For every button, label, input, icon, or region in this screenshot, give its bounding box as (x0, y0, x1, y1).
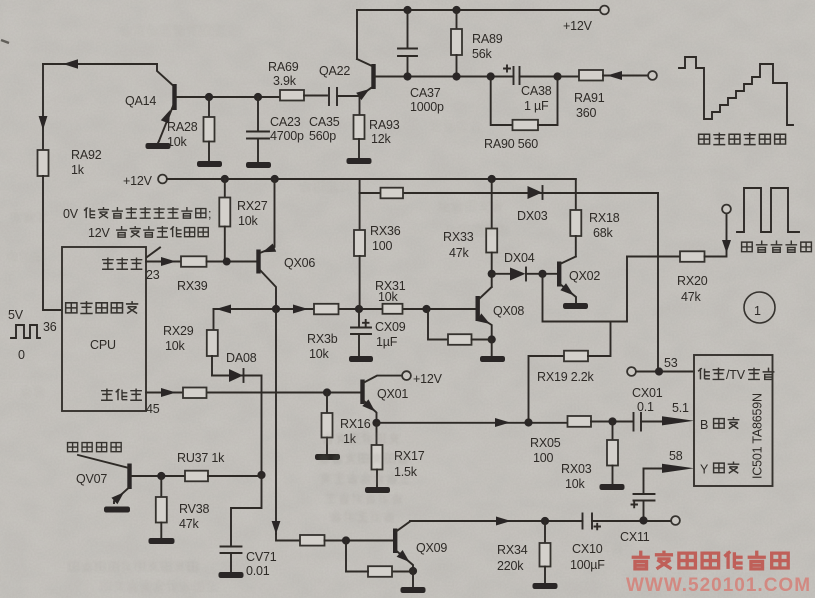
node rail dot RX33 (488, 175, 496, 183)
terminal flyback pulse input (722, 205, 731, 214)
svg-text:36: 36 (43, 320, 57, 334)
ground CX09 (349, 356, 373, 362)
svg-text:CV71: CV71 (246, 550, 277, 564)
node dot RA89 bottom (452, 72, 460, 80)
svg-text:0V: 0V (63, 207, 79, 221)
arrow pin45 (161, 388, 176, 397)
svg-text:45: 45 (146, 402, 160, 416)
svg-text:RX36: RX36 (370, 224, 401, 238)
node QX01 emitter (372, 419, 380, 427)
svg-text:100: 100 (372, 239, 393, 253)
wire QA14 base row (176, 96, 280, 98)
arrow right on row 309 (293, 305, 308, 314)
resistor RA91 (558, 70, 649, 120)
CPU label blue character (101, 389, 142, 401)
svg-text:CX10: CX10 (572, 542, 603, 556)
resistor QX09 base series (300, 535, 393, 546)
svg-text:QX06: QX06 (284, 256, 315, 270)
CPU block IC (62, 247, 146, 411)
svg-text:10k: 10k (378, 290, 399, 304)
svg-text:RA28: RA28 (167, 120, 198, 134)
node DX04 left (488, 270, 496, 278)
svg-text:CA35: CA35 (309, 115, 340, 129)
IC label char/TV switch (698, 368, 724, 380)
svg-text:QX01: QX01 (377, 387, 408, 401)
wire +12V rail middle (167, 178, 576, 180)
resistor RX03 (561, 422, 618, 492)
label video sync signal (699, 133, 786, 145)
svg-text:+12V: +12V (563, 19, 593, 33)
wire QX02 base network rectangle (543, 257, 628, 322)
resistor RX3b (307, 304, 339, 361)
svg-text:0.01: 0.01 (246, 564, 270, 578)
node B row RX03 tap (608, 417, 616, 425)
resistor RX36 (354, 224, 401, 309)
resistor RA93 (354, 96, 400, 158)
node QX06 base dot (223, 258, 231, 266)
arrow pin23 (161, 257, 176, 266)
svg-text:RX18: RX18 (589, 211, 620, 225)
svg-text:10k: 10k (165, 339, 186, 353)
resistor clamp series (381, 188, 404, 199)
resistor RX34 (497, 521, 551, 583)
node base row dot 2 (254, 93, 262, 101)
arrow down on left vertical (39, 116, 48, 130)
wire RA92 to CPU pin 36 (43, 176, 62, 310)
svg-text:CX09: CX09 (375, 320, 406, 334)
wire B signal row (377, 422, 568, 424)
arrow down to QX09 base row (272, 521, 281, 534)
node bottom RX34 (541, 517, 549, 525)
arrow into pin Y (662, 464, 694, 473)
svg-text:CA23: CA23 (270, 115, 301, 129)
svg-text:0.1: 0.1 (637, 400, 654, 414)
wire RX19 column (529, 356, 565, 423)
wire DA08 down vertical (261, 376, 263, 476)
wire pin23 to RX39 (146, 261, 181, 263)
svg-text:12k: 12k (371, 132, 392, 146)
svg-text:QA14: QA14 (125, 94, 156, 108)
diode DX04 (492, 251, 557, 281)
pin 58 label (669, 449, 683, 463)
wire left vertical to RA92 (42, 64, 44, 150)
svg-text:DX04: DX04 (504, 251, 535, 265)
svg-text:RX20: RX20 (677, 274, 708, 288)
wire clamp feedback vertical to pin53 (657, 193, 659, 372)
pin 53 label (664, 356, 678, 370)
svg-text:RX19 2.2k: RX19 2.2k (537, 370, 595, 384)
resistor pin45 series (183, 388, 207, 399)
resistor RX20 (627, 214, 727, 305)
diode DX03 (517, 186, 548, 223)
svg-text:CA37: CA37 (410, 86, 441, 100)
svg-text:23: 23 (146, 268, 160, 282)
resistor RX27 (219, 179, 267, 262)
ground RA93 (347, 158, 372, 164)
node top rail dot CA37 (403, 6, 411, 14)
svg-text:IC501 TA8659N: IC501 TA8659N (751, 393, 765, 479)
resistor RX16 (322, 393, 371, 455)
svg-text:RA90 560: RA90 560 (484, 137, 538, 151)
svg-text:220k: 220k (497, 559, 524, 573)
ground CA23 (246, 162, 271, 168)
node DX04 right QX02 base (538, 270, 546, 278)
svg-text:100: 100 (533, 451, 554, 465)
svg-text:RX27: RX27 (237, 199, 268, 213)
svg-text:0: 0 (18, 348, 25, 362)
ground QX08 (480, 356, 505, 362)
wire QA22 base row to CA38 (375, 76, 514, 78)
svg-text:+12V: +12V (123, 174, 153, 188)
ground QX02 (563, 303, 588, 309)
CPU label sync signal in (66, 301, 139, 313)
wire pin45 blue-character row (146, 392, 361, 394)
svg-text:1: 1 (754, 304, 761, 318)
capacitor CX01 (632, 386, 663, 431)
svg-text:53: 53 (664, 356, 678, 370)
svg-text:1k: 1k (71, 163, 85, 177)
capacitor CX09 (351, 309, 406, 356)
wire QX09 emitter ground (412, 571, 414, 587)
resistor RX29 (163, 324, 218, 376)
watermark red url (626, 575, 811, 596)
svg-text:10k: 10k (565, 477, 586, 491)
arrow down flyback (722, 240, 731, 253)
wire top-left horizontal feedback (43, 63, 157, 65)
svg-text:68k: 68k (593, 226, 614, 240)
svg-text:RX39: RX39 (177, 279, 208, 293)
node dot CA38 left (487, 72, 495, 80)
terminal +12V QX01 (402, 371, 443, 386)
arrow bottom row (496, 517, 511, 526)
transistor QA14 (125, 64, 177, 141)
svg-text:RX3b: RX3b (307, 332, 338, 346)
pin 45 label (146, 402, 160, 416)
terminal video sync input (648, 71, 657, 80)
wire QV07 base row (131, 475, 185, 477)
resistor RX19 (537, 322, 611, 385)
svg-text:Y: Y (700, 463, 709, 477)
resistor RA90 bypass (484, 77, 558, 152)
svg-text:DA08: DA08 (226, 351, 257, 365)
wire clamp row with series resistor (360, 192, 658, 194)
svg-text:RX29: RX29 (163, 324, 194, 338)
wire to CV71 (231, 475, 262, 546)
wire row309 left bend to RX29 (213, 309, 215, 330)
svg-text:RA89: RA89 (472, 32, 503, 46)
svg-text:10k: 10k (309, 347, 330, 361)
CPU label blue background (102, 258, 142, 270)
svg-text:10k: 10k (167, 135, 188, 149)
svg-text:47k: 47k (449, 246, 470, 260)
wire QX09 base row (276, 534, 300, 541)
capacitor CA23 (247, 97, 304, 162)
ground QA14 emitter (146, 141, 171, 149)
arrow B row (495, 418, 510, 427)
label signal signal QV07 (68, 443, 122, 452)
node QX08 emitter (488, 335, 496, 343)
resistor RX33 (443, 179, 497, 274)
svg-text:1.5k: 1.5k (394, 465, 418, 479)
node QX09 emitter (409, 567, 417, 575)
node base row dot 1 (205, 93, 213, 101)
node dot CA37 bottom (403, 72, 411, 80)
ground RX17 (365, 487, 390, 493)
node top rail dot RA89 (452, 6, 460, 14)
svg-text:4700p: 4700p (270, 129, 304, 143)
node dot CA38 right (553, 72, 561, 80)
wire pin53 row (636, 371, 694, 373)
wire long vertical to QX09 (275, 309, 277, 534)
symbol circled 1 (744, 292, 775, 323)
node rail dot QX06 emitter (271, 175, 279, 183)
capacitor CA35 (309, 88, 360, 143)
transistor QX01 (360, 376, 408, 423)
IC label Y input pin (700, 463, 709, 477)
terminal +12V mid-left (123, 174, 167, 188)
svg-text:CX01: CX01 (632, 386, 663, 400)
resistor RA69 (268, 60, 327, 101)
pin 23 label and slash (146, 248, 160, 283)
resistor RX31 (375, 279, 406, 314)
node row309 CX09 (355, 305, 363, 313)
transistor QV07 (76, 455, 132, 504)
transistor QX08 (476, 274, 525, 340)
svg-text:WWW.520101.COM: WWW.520101.COM (626, 575, 811, 596)
capacitor CX11 (620, 469, 655, 545)
resistor QX08 feedback (428, 309, 492, 345)
svg-text:5V: 5V (8, 308, 24, 322)
capacitor CV71 (221, 547, 277, 579)
svg-text:1 µF: 1 µF (524, 99, 549, 113)
ground RX16 (315, 454, 340, 460)
svg-text:360: 360 (576, 106, 597, 120)
arrow into RA91 (607, 71, 622, 80)
svg-text:DX03: DX03 (517, 209, 548, 223)
pin 5.1 label (672, 401, 689, 415)
node row309 QX06 collector (272, 305, 280, 313)
resistor RA89 (451, 10, 503, 77)
arrow left on row 309 (216, 305, 231, 314)
resistor RU37 (177, 451, 262, 481)
node B row RX19 tap (524, 418, 532, 426)
terminal pin53 (627, 367, 636, 376)
svg-text:CPU: CPU (90, 338, 116, 352)
svg-text:/TV: /TV (726, 368, 746, 382)
svg-text:47k: 47k (681, 290, 702, 304)
transistor QX02 (557, 257, 600, 304)
node QX09 base (342, 536, 350, 544)
wire Y row (644, 468, 663, 470)
svg-text:CA38: CA38 (521, 84, 552, 98)
wire RX36 column (359, 179, 361, 230)
ground RX34 (533, 583, 558, 589)
arrow into pin B (662, 416, 694, 425)
note 0V low level blue background text line1 (63, 207, 79, 221)
resistor RX05 (530, 416, 633, 465)
svg-text:RU37 1k: RU37 1k (177, 451, 225, 465)
svg-text:RX34: RX34 (497, 543, 528, 557)
terminal bottom output (671, 516, 680, 525)
diode DA08 (212, 351, 262, 382)
capacitor CX10 (570, 514, 672, 573)
resistor RX18 (570, 179, 619, 257)
svg-text:1µF: 1µF (376, 335, 398, 349)
svg-text:56k: 56k (472, 47, 493, 61)
pin 36 label (43, 320, 57, 334)
svg-text:3.9k: 3.9k (273, 74, 297, 88)
node bottom CX11 (639, 516, 647, 524)
wire signal row 309 (214, 308, 476, 310)
ground QX09 (401, 587, 426, 593)
ground RV38 (149, 538, 175, 544)
svg-text:560p: 560p (309, 129, 336, 143)
svg-text:RX05: RX05 (530, 436, 561, 450)
svg-text:QX02: QX02 (569, 269, 600, 283)
wire top supply rail (357, 9, 600, 11)
svg-text:RA69: RA69 (268, 60, 299, 74)
svg-text:RA92: RA92 (71, 148, 102, 162)
svg-text:1000p: 1000p (410, 100, 444, 114)
resistor QX09 feedback (346, 541, 413, 577)
capacitor CA38 (504, 66, 558, 114)
5V square wave symbol (8, 308, 40, 362)
note 12V high level text line2 (88, 226, 111, 240)
node RU37 right (257, 471, 265, 479)
transistor QA22 (319, 10, 376, 100)
svg-text:RX03: RX03 (561, 462, 592, 476)
wire QX08 emitter to ground (491, 340, 493, 357)
node QX01 base (323, 388, 331, 396)
svg-text:QX09: QX09 (416, 541, 447, 555)
ground RA28 (197, 161, 222, 167)
svg-text:RA91: RA91 (574, 91, 605, 105)
node pin53 (655, 367, 663, 375)
label horizontal flyback pulse (742, 241, 812, 253)
svg-text:RX16: RX16 (340, 417, 371, 431)
transistor QX06 (256, 179, 315, 309)
svg-text:CX11: CX11 (620, 530, 650, 544)
resistor RX17 (372, 423, 425, 487)
capacitor CA37 (398, 10, 444, 114)
IC501 block (694, 355, 773, 486)
node RV38 tap (157, 472, 165, 480)
resistor RA92 (38, 148, 102, 177)
svg-text:RV38: RV38 (179, 502, 209, 516)
watermark red site name (632, 551, 789, 569)
node rail dot RX27 (221, 175, 229, 183)
svg-text:QV07: QV07 (76, 472, 107, 486)
IC label B input pin (700, 418, 708, 432)
terminal +12V top (563, 6, 609, 33)
svg-text:58: 58 (669, 449, 683, 463)
svg-text:12V: 12V (88, 226, 111, 240)
resistor RA28 (167, 97, 215, 161)
waveform flyback pulses (737, 188, 799, 232)
arrow left on top-left wire (63, 59, 78, 69)
waveform video sync staircase (679, 57, 793, 125)
svg-text:+12V: +12V (413, 372, 443, 386)
transistor QX09 (393, 522, 447, 572)
resistor RV38 (156, 476, 210, 538)
ground CV71 (219, 572, 244, 578)
svg-text:QX08: QX08 (493, 304, 524, 318)
svg-text:QA22: QA22 (319, 64, 350, 78)
svg-text:47k: 47k (179, 517, 200, 531)
node row309 QX08 base (422, 305, 430, 313)
svg-text:10k: 10k (238, 214, 259, 228)
ground RX03 (600, 484, 625, 490)
svg-text:RA93: RA93 (369, 118, 400, 132)
resistor RX39 (177, 256, 256, 293)
svg-text:;: ; (208, 207, 211, 221)
ground QV07 (104, 507, 130, 513)
svg-text:100µF: 100µF (570, 558, 605, 572)
svg-text:5.1: 5.1 (672, 401, 689, 415)
wire bottom output row (410, 520, 583, 522)
svg-text:RX17: RX17 (394, 449, 425, 463)
